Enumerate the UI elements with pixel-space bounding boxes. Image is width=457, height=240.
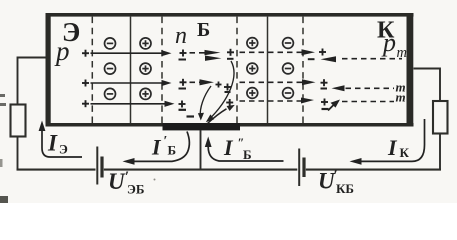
dash under hole, row 3 <box>179 109 187 111</box>
acceptor ions (minus) in emitter-side depletion layer <box>105 38 116 100</box>
hole symbol in base, row 2 middle <box>216 82 222 88</box>
svg-text:т: т <box>396 90 406 105</box>
bottom rail right segment <box>306 169 441 171</box>
electron supply curved arrow from base contact toward hole, row 3 <box>208 105 235 124</box>
current arrow I''_Б <box>205 137 284 162</box>
svg-text:I: I <box>47 131 58 156</box>
base lead wire <box>200 130 202 171</box>
hole symbol in base, row 2 right <box>224 84 231 91</box>
depletion boundary (dashed) collector side <box>302 17 304 123</box>
resistor (emitter circuit) <box>11 105 26 137</box>
svg-text:I: I <box>151 135 162 160</box>
depletion boundary (dashed) base side of CB junction <box>236 17 238 123</box>
svg-text:Б: Б <box>168 143 177 158</box>
recombination arrow D (from row2 area, bulging left) <box>198 86 211 121</box>
hole symbol, emitter row 3 <box>82 100 89 107</box>
emitter-base junction (solid) <box>130 17 132 123</box>
dash under hole (lower dashed line), row 1 <box>179 59 187 61</box>
wire from emitter to left rail <box>18 58 46 105</box>
wire from resistor to bottom rail <box>17 137 19 171</box>
donor ions (plus) in base-side depletion layer of CB junction <box>247 38 258 99</box>
svg-text:КБ: КБ <box>336 181 354 196</box>
hole injection arrow, row 1 <box>91 50 172 56</box>
svg-text:n: n <box>175 23 187 49</box>
hole injection arrow, row 3 <box>91 101 175 107</box>
drift arrow across CB depletion, row 3 <box>240 98 315 104</box>
diffusion dashed arrow, base row 1 upper <box>190 50 221 55</box>
hole symbol in base, row 1 right <box>227 49 234 56</box>
bottom rail left segment <box>17 169 96 171</box>
electron (minus) near base contact <box>187 115 195 117</box>
drift arrow across CB depletion, row 2 <box>240 79 316 85</box>
hole symbol in base, row 2 left <box>180 79 187 86</box>
hole injection arrow, row 2 <box>91 80 172 86</box>
hole symbol, emitter row 1 <box>82 50 89 57</box>
thermal carrier dashed arrow, collector row 1 <box>308 56 402 62</box>
scan smudges (decorative) <box>0 94 156 203</box>
current arrow I_Э <box>39 121 82 158</box>
dash under hole, base row 1 right <box>227 58 234 60</box>
svg-text:p: p <box>54 36 70 66</box>
depletion boundary (dashed) emitter side <box>91 17 93 123</box>
svg-text:Б: Б <box>197 19 210 41</box>
wire from resistor to bottom rail right corner <box>439 134 441 170</box>
svg-text:I: I <box>387 135 398 160</box>
acceptor ions (minus) in collector-side depletion layer <box>283 38 294 99</box>
hole symbol in base, row 3 <box>179 101 186 108</box>
dash under hole, base row 2 right <box>225 91 231 93</box>
depletion boundary (dashed) base side of EB junction <box>161 17 163 123</box>
wire from collector to right rail <box>414 69 441 102</box>
donor ions (plus) in base-side depletion layer of EB junction <box>140 38 151 100</box>
svg-text:U: U <box>108 169 126 194</box>
drift arrow across CB depletion, row 1 <box>240 49 316 55</box>
dash under hole collector row 3 <box>322 108 329 110</box>
dash under hole collector row 2 <box>321 88 328 90</box>
current arrow I_К <box>350 119 425 165</box>
hole symbol in collector, row 3 <box>321 99 328 106</box>
diffusion dashed arrow, base row 2 <box>190 79 215 85</box>
hole symbol in base, row 3 right <box>226 99 233 106</box>
svg-text:Э: Э <box>59 142 68 157</box>
hole symbol, emitter row 2 <box>82 80 89 87</box>
thermal dashed line, collector row 3 <box>342 101 394 103</box>
svg-text:I: I <box>223 135 234 160</box>
diffusion arrowhead, base row 1 lower <box>205 56 222 61</box>
resistor (collector circuit) <box>433 101 448 134</box>
battery U'КБ short plate <box>302 158 305 178</box>
recombination arrow A (from row1 hole down to base contact) <box>206 61 234 122</box>
base contact (metal bar) <box>163 123 241 130</box>
hole symbol in collector, row 2 <box>321 79 328 86</box>
svg-text:p: p <box>381 28 396 57</box>
battery U'ЭБ short plate <box>100 157 103 178</box>
battery U'ЭБ long plate <box>96 147 98 185</box>
current arrow I'_Б <box>123 132 190 165</box>
svg-text:Б: Б <box>243 147 252 162</box>
collector-base junction (solid) <box>267 17 269 123</box>
hole symbol in base, row 1 left <box>180 50 187 57</box>
battery U'КБ long plate <box>298 149 300 187</box>
svg-text:К: К <box>400 145 410 160</box>
svg-text:ЭБ: ЭБ <box>127 182 144 197</box>
thermal carrier dashed arrow, collector row 2 <box>332 85 395 91</box>
bottom rail middle segment <box>104 169 297 171</box>
hole symbol in collector, row 1 <box>319 49 326 56</box>
generation diagonal arrow, collector row 3 <box>328 100 340 111</box>
dash under hole, row 2 <box>179 88 187 90</box>
transistor body outline <box>46 13 414 127</box>
